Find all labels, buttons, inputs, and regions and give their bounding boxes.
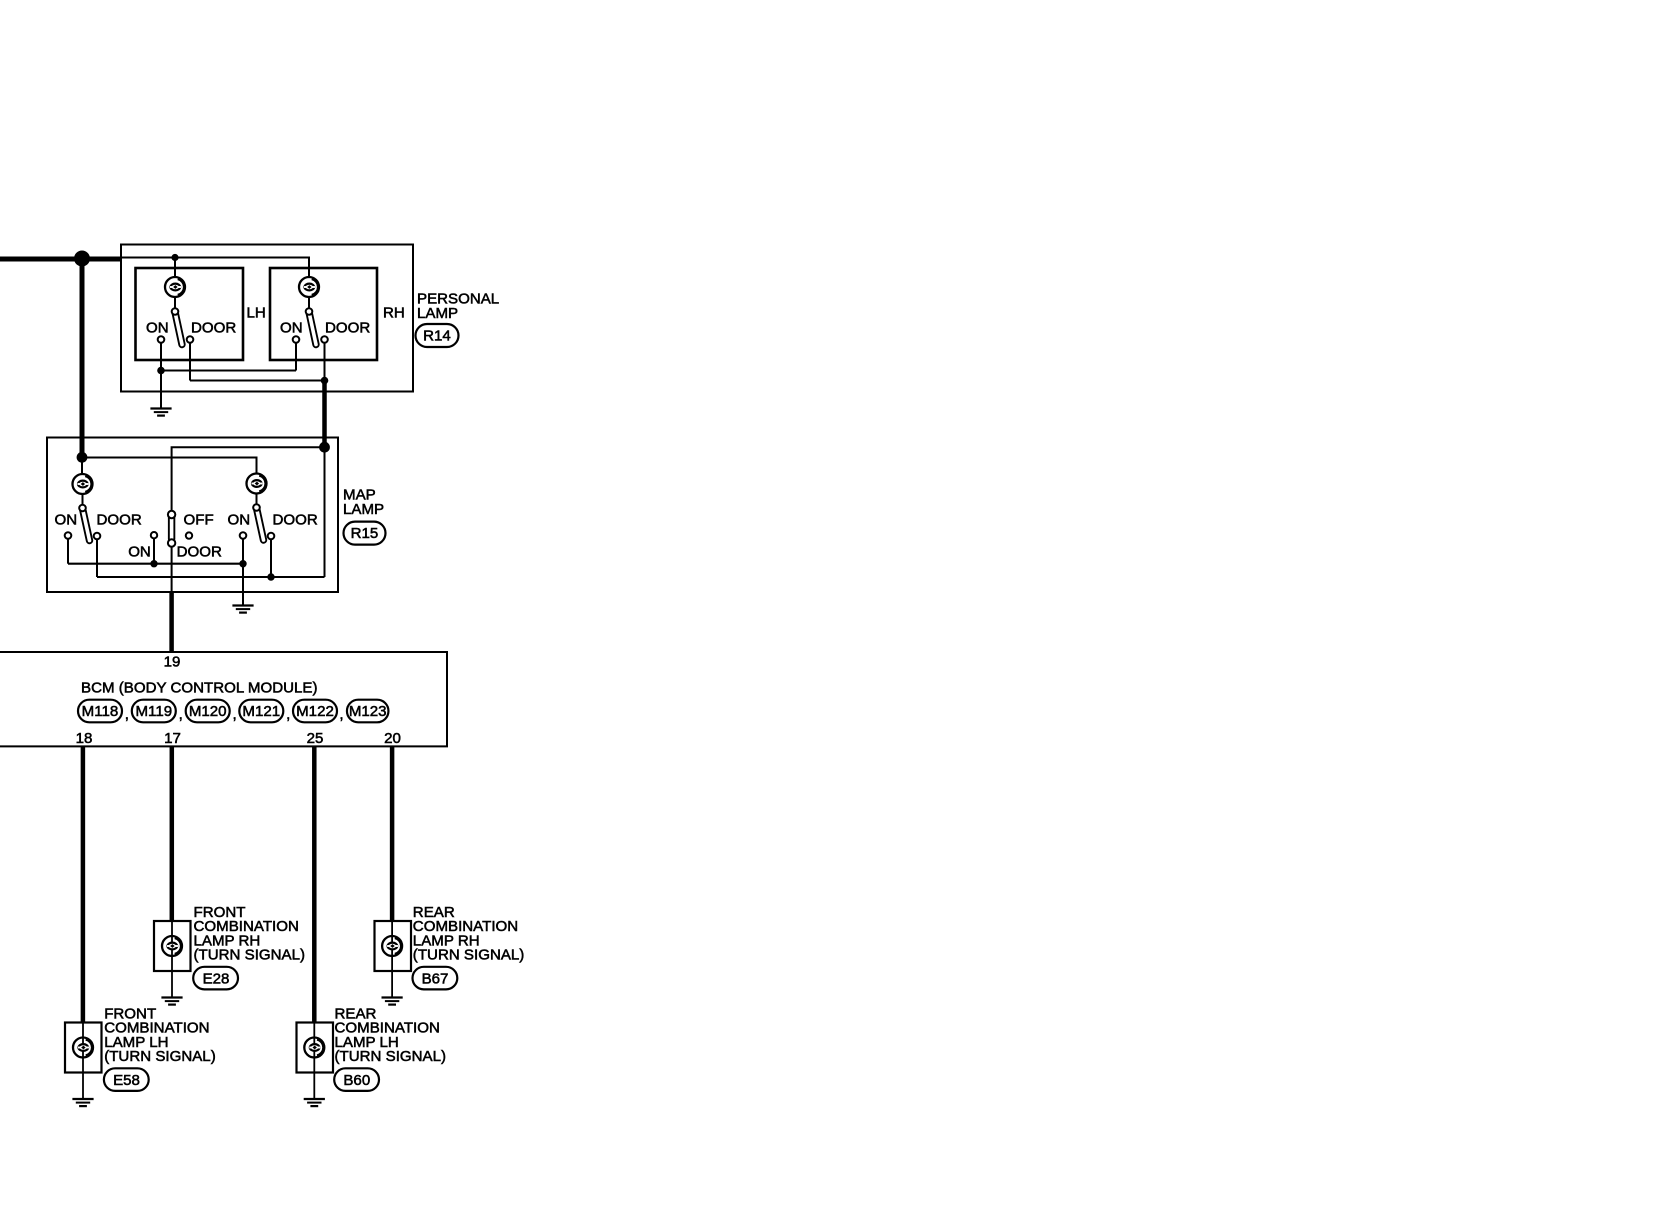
label DOOR map LH <box>97 512 142 529</box>
terminal DOOR map LH <box>94 533 101 540</box>
svg-text:DOOR: DOOR <box>273 512 318 529</box>
comma separators <box>125 706 344 723</box>
wire battery feed horizontal <box>0 257 122 262</box>
wire map ON LH drop <box>67 539 69 564</box>
bulb rear combination lamp LH turn signal <box>304 1038 324 1058</box>
bulb personal lamp RH <box>299 277 319 297</box>
wire to personal lamp LH bulb <box>174 258 176 279</box>
label LH <box>247 305 266 322</box>
switch map RH lever <box>257 508 264 540</box>
switch map center lower contact <box>168 539 175 546</box>
svg-text:ON: ON <box>280 320 303 337</box>
svg-text:E58: E58 <box>113 1072 140 1089</box>
wire door feed to center switch <box>172 447 325 511</box>
node map lamp door feed <box>319 442 330 453</box>
terminal ON map LH <box>65 532 72 539</box>
svg-text:ON: ON <box>228 512 251 529</box>
ground front combination lamp LH turn signal <box>72 1099 93 1106</box>
switch personal LH lever <box>175 312 182 345</box>
wire to personal lamp RH bulb <box>175 258 309 279</box>
svg-text:(TURN SIGNAL): (TURN SIGNAL) <box>335 1048 447 1065</box>
label front combination lamp LH turn signal <box>104 1005 216 1065</box>
junction power feed node <box>74 251 90 267</box>
label PERSONAL LAMP <box>417 291 499 323</box>
wire pin 20 to rear combination lamp RH <box>390 746 395 921</box>
ground rear combination lamp LH turn signal <box>304 1099 325 1106</box>
label BCM <box>81 680 318 697</box>
svg-text:OFF: OFF <box>184 512 214 529</box>
label MAP LAMP <box>343 487 384 519</box>
wire ON link LH-RH <box>161 370 296 372</box>
wire rear combination lamp LH turn signal internal <box>313 1023 315 1099</box>
connector oval M120 <box>186 700 230 723</box>
ground map lamp <box>232 606 253 613</box>
label rear combination lamp RH turn signal <box>413 904 525 964</box>
svg-text:ON: ON <box>146 320 169 337</box>
svg-text:19: 19 <box>164 654 181 671</box>
wire LH bulb to switch <box>174 297 176 312</box>
wire map ON link <box>68 563 243 565</box>
wire map DOOR LH drop <box>96 539 98 577</box>
wire front combination lamp LH turn signal internal <box>82 1023 84 1099</box>
terminal ON personal RH <box>293 336 300 343</box>
svg-text:,: , <box>339 706 343 723</box>
switch personal RH pivot <box>306 308 313 315</box>
svg-text:ON: ON <box>128 544 151 561</box>
terminal OFF map center <box>186 532 192 538</box>
bulb front combination lamp RH turn signal <box>162 936 182 956</box>
label ON map center <box>128 544 151 561</box>
node map ON RH <box>239 560 246 567</box>
svg-text:M118: M118 <box>82 703 119 720</box>
label RH <box>383 305 405 322</box>
svg-text:BCM (BODY CONTROL MODULE): BCM (BODY CONTROL MODULE) <box>81 680 318 697</box>
wire RH bulb to switch <box>308 297 310 312</box>
connector oval M122 <box>293 700 337 723</box>
label ON map RH <box>228 512 251 529</box>
svg-text:R15: R15 <box>351 525 379 542</box>
svg-text:,: , <box>286 706 290 723</box>
wire power feed vertical <box>80 259 85 458</box>
switch map center pivot <box>168 511 175 518</box>
svg-text:M120: M120 <box>189 703 227 720</box>
bulb map lamp LH <box>73 474 93 494</box>
svg-text:LAMP: LAMP <box>417 305 458 322</box>
svg-text:17: 17 <box>164 730 181 747</box>
label front combination lamp RH turn signal <box>194 904 306 964</box>
wire DOOR LH drop <box>189 343 191 381</box>
wire feed into personal lamp <box>122 257 175 259</box>
map lamp unit R15 outline <box>47 438 338 593</box>
switch personal RH lever <box>309 312 316 345</box>
node personal ON net <box>157 367 165 375</box>
connector oval M118 <box>78 700 122 723</box>
wire front combination lamp RH turn signal internal <box>171 921 173 997</box>
svg-text:LAMP: LAMP <box>343 501 384 518</box>
node map lamp feed <box>77 452 88 463</box>
terminal ON map center <box>151 532 157 538</box>
svg-text:R14: R14 <box>423 328 451 345</box>
connector oval M123 <box>347 700 389 723</box>
personal lamp LH cell box <box>136 268 244 360</box>
svg-text:RH: RH <box>383 305 405 322</box>
label DOOR map center <box>177 544 222 561</box>
svg-text:,: , <box>232 706 236 723</box>
svg-text:ON: ON <box>55 512 78 529</box>
pin 17 label <box>164 730 181 747</box>
wire feed to map LH bulb <box>81 457 83 474</box>
wire pin 17 to front combination lamp RH <box>170 746 175 921</box>
pin 18 label <box>76 730 93 747</box>
switch personal LH pivot <box>172 308 179 315</box>
label DOOR map RH <box>273 512 318 529</box>
wire ON RH drop <box>295 343 297 371</box>
ground rear combination lamp RH turn signal <box>382 998 403 1005</box>
terminal ON personal LH <box>158 336 165 343</box>
connector oval R14 <box>416 324 459 347</box>
node above personal lamp LH bulb <box>171 254 178 261</box>
connector oval M121 <box>239 700 283 723</box>
switch map RH pivot <box>253 504 260 511</box>
wire rear combination lamp RH turn signal internal <box>391 921 393 997</box>
node map ON center <box>150 560 157 567</box>
bulb map lamp RH <box>247 474 267 494</box>
terminal DOOR personal RH <box>321 336 328 343</box>
wire door feed right drop <box>324 447 326 577</box>
connector oval E28 <box>193 967 238 990</box>
connector oval R15 <box>344 522 386 545</box>
svg-text:DOOR: DOOR <box>97 512 142 529</box>
connector oval M119 <box>132 700 176 723</box>
svg-text:M119: M119 <box>135 703 172 720</box>
svg-text:18: 18 <box>76 730 93 747</box>
personal lamp RH cell box <box>270 268 377 360</box>
bulb rear combination lamp RH turn signal <box>382 936 402 956</box>
svg-text:M121: M121 <box>242 703 280 720</box>
svg-text:DOOR: DOOR <box>191 320 236 337</box>
wire map DOOR link <box>97 576 325 578</box>
svg-text:20: 20 <box>384 730 401 747</box>
pin 20 label <box>384 730 401 747</box>
wire map center output <box>171 547 173 592</box>
switch map center lever <box>168 516 175 539</box>
svg-text:(TURN SIGNAL): (TURN SIGNAL) <box>104 1048 216 1065</box>
wire DOOR link <box>190 380 325 382</box>
switch map LH pivot <box>79 505 86 512</box>
wire map ON RH drop <box>242 539 244 564</box>
rear combination lamp LH turn signal box <box>297 1023 334 1073</box>
ground front combination lamp RH turn signal <box>161 998 182 1005</box>
terminal DOOR map RH <box>268 533 275 540</box>
connector oval B60 <box>334 1068 379 1091</box>
wire map DOOR RH drop <box>270 539 272 577</box>
svg-text:B67: B67 <box>422 970 449 987</box>
label ON map LH <box>55 512 78 529</box>
svg-text:(TURN SIGNAL): (TURN SIGNAL) <box>194 947 306 964</box>
label DOOR personal RH <box>325 320 370 337</box>
wire feed to map RH bulb <box>82 458 257 475</box>
svg-text:DOOR: DOOR <box>177 544 222 561</box>
svg-text:,: , <box>179 706 183 723</box>
wire personal DOOR to map lamp <box>322 381 327 448</box>
wire map ground drop <box>242 564 244 605</box>
wire map ON center drop <box>153 538 155 563</box>
svg-text:M123: M123 <box>349 703 387 720</box>
connector oval E58 <box>104 1068 149 1091</box>
connector oval B67 <box>413 967 458 990</box>
terminal ON map RH <box>240 532 247 539</box>
switch map LH lever <box>83 509 90 541</box>
terminal DOOR personal LH <box>187 336 194 343</box>
svg-text:(TURN SIGNAL): (TURN SIGNAL) <box>413 947 525 964</box>
bulb personal lamp LH <box>165 277 185 297</box>
label ON personal RH <box>280 320 303 337</box>
svg-text:M122: M122 <box>296 703 334 720</box>
wire map RH bulb to switch <box>256 493 258 508</box>
bulb front combination lamp LH turn signal <box>73 1038 93 1058</box>
ground personal lamp <box>150 409 171 416</box>
label rear combination lamp LH turn signal <box>335 1005 447 1065</box>
wire pin 25 to rear combination lamp LH <box>312 746 317 1023</box>
pin 19 label <box>164 654 181 671</box>
svg-text:LH: LH <box>247 305 266 322</box>
svg-text:DOOR: DOOR <box>325 320 370 337</box>
pin 25 label <box>307 730 324 747</box>
personal lamp unit R14 outline <box>121 245 413 392</box>
label ON personal LH <box>146 320 169 337</box>
wire personal ground drop <box>160 371 162 408</box>
svg-text:25: 25 <box>307 730 324 747</box>
wire DOOR RH drop <box>324 343 326 381</box>
front combination lamp LH turn signal box <box>65 1023 102 1073</box>
BCM box outline <box>0 652 447 746</box>
svg-text:B60: B60 <box>343 1072 370 1089</box>
wire map lamp to BCM pin 19 <box>169 592 174 652</box>
svg-text:,: , <box>125 706 129 723</box>
wire map LH bulb to switch <box>82 494 84 509</box>
front combination lamp RH turn signal box <box>154 921 191 971</box>
wire pin 18 to front combination lamp LH <box>81 746 86 1023</box>
svg-text:E28: E28 <box>203 970 230 987</box>
rear combination lamp RH turn signal box <box>375 921 412 971</box>
node map DOOR net <box>267 573 274 580</box>
label DOOR personal LH <box>191 320 236 337</box>
label OFF map center <box>184 512 214 529</box>
node personal DOOR net <box>321 377 329 385</box>
wire ON LH drop <box>160 343 162 371</box>
